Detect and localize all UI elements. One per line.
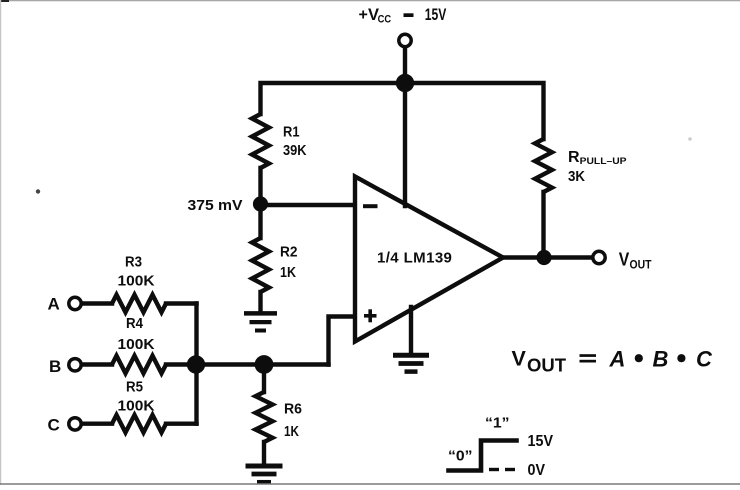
svg-text:R1: R1	[283, 124, 300, 141]
svg-text:15V: 15V	[425, 6, 447, 24]
svg-text:1/4 LM139: 1/4 LM139	[377, 250, 452, 267]
svg-text:OUT: OUT	[527, 355, 567, 376]
svg-text:R5: R5	[126, 379, 143, 396]
svg-text:15V: 15V	[528, 433, 554, 450]
svg-text:100K: 100K	[118, 398, 155, 415]
svg-text:“1”: “1”	[485, 416, 510, 432]
svg-text:0V: 0V	[528, 462, 546, 479]
svg-text:B: B	[49, 357, 61, 376]
svg-text:100K: 100K	[118, 273, 155, 290]
svg-text:CC: CC	[378, 13, 392, 25]
svg-text:B: B	[653, 346, 669, 371]
svg-text:1K: 1K	[280, 264, 296, 281]
svg-text:3K: 3K	[568, 168, 585, 185]
svg-text:R6: R6	[284, 401, 302, 418]
svg-text:R2: R2	[280, 244, 298, 261]
svg-text:R4: R4	[126, 315, 144, 332]
svg-text:39K: 39K	[283, 142, 307, 159]
svg-text:375 mV: 375 mV	[188, 197, 243, 214]
svg-text:1K: 1K	[284, 423, 299, 440]
svg-text:R3: R3	[125, 254, 142, 271]
svg-text:C: C	[696, 346, 713, 371]
svg-text:A: A	[48, 295, 60, 314]
svg-text:C: C	[48, 415, 60, 434]
svg-text:A: A	[609, 346, 626, 371]
svg-text:V: V	[619, 249, 630, 269]
svg-text:“0”: “0”	[448, 449, 473, 465]
svg-text:V: V	[512, 347, 527, 371]
svg-text:100K: 100K	[118, 336, 155, 353]
svg-text:OUT: OUT	[630, 259, 652, 271]
svg-text:+: +	[359, 7, 368, 24]
